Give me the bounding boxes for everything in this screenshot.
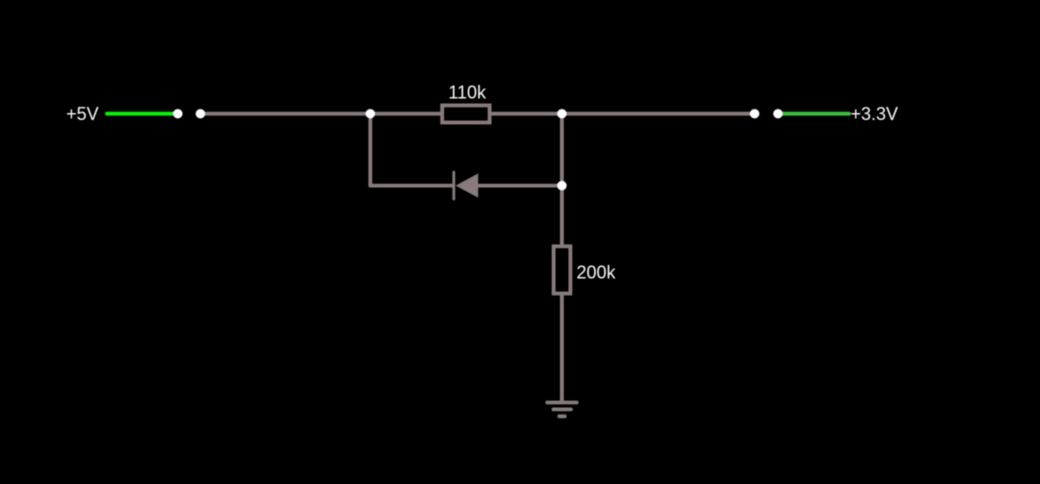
wire: center vertical stem: [560, 114, 564, 246]
ground: [547, 403, 577, 417]
rail lead wire (+5V, green): [107, 112, 174, 116]
svg-text:200k: 200k: [577, 263, 617, 283]
resistor R2 200k (vertical): [554, 246, 571, 293]
terminal dot (wire post left): [196, 109, 206, 119]
resistor R1 110k (horizontal): [442, 105, 489, 122]
junction node A: [366, 109, 376, 119]
terminal dot (+5V rail post): [173, 109, 183, 119]
rail lead wire (+3.3V, green): [781, 112, 849, 116]
junction node B: [557, 109, 567, 119]
wire: top horizontal net: [200, 112, 754, 116]
svg-text:+3.3V: +3.3V: [851, 104, 899, 124]
svg-text:110k: 110k: [448, 83, 487, 103]
wire: left branch down and right to diode: [370, 114, 452, 186]
terminal dot (+3.3V rail post): [773, 109, 783, 119]
diode D1 (pointing left): [452, 172, 455, 199]
svg-text:+5V: +5V: [66, 104, 99, 124]
junction node C: [557, 181, 567, 191]
terminal dot (wire post right): [750, 109, 760, 119]
wire: diode cathode to center node: [478, 184, 562, 188]
